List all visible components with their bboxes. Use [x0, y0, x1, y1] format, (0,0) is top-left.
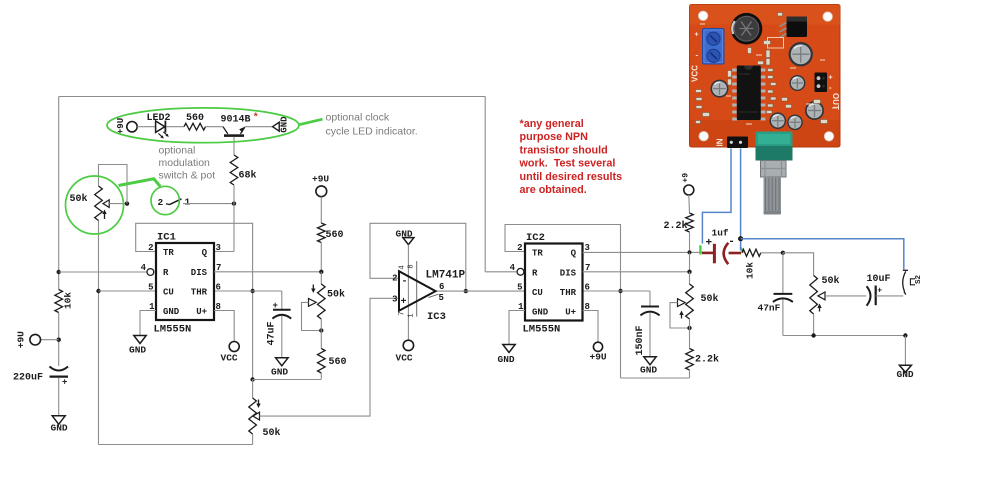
svg-text:purpose NPN: purpose NPN — [520, 131, 589, 143]
svg-text:-: - — [402, 276, 408, 287]
green pointer to caption — [299, 119, 323, 125]
wire 68k to Q node — [233, 185, 235, 204]
svg-text:work. Test several: work. Test several — [519, 158, 616, 170]
resistor 2.2k lower — [686, 349, 694, 371]
svg-text:LED2: LED2 — [147, 113, 171, 124]
svg-text:+: + — [706, 237, 713, 249]
ground IC1 — [134, 336, 146, 344]
node pot-rail junction — [811, 333, 815, 337]
svg-text:GND: GND — [163, 307, 180, 317]
PCB OUT header — [815, 73, 828, 93]
wire IC1 DIS — [214, 271, 321, 273]
wire bottom pot to rail — [252, 434, 254, 445]
svg-text:6: 6 — [216, 282, 221, 292]
svg-text:+9U: +9U — [116, 118, 126, 134]
svg-text:are obtained.: are obtained. — [520, 184, 587, 196]
svg-text:-: - — [696, 51, 699, 60]
svg-text:5: 5 — [439, 293, 444, 303]
wire timing node to bottom pot — [252, 380, 254, 399]
svg-text:optional clock: optional clock — [326, 112, 390, 124]
wire IC2 reset — [485, 271, 517, 273]
green pointer mod — [119, 179, 161, 187]
svg-text:GND: GND — [51, 423, 68, 434]
svg-text:IC2: IC2 — [526, 232, 545, 244]
svg-text:modulation: modulation — [159, 157, 211, 169]
svg-text:GND: GND — [498, 354, 515, 365]
PCB big capacitor — [731, 13, 763, 45]
svg-text:CU: CU — [163, 288, 174, 298]
ground 150nF — [644, 357, 656, 365]
wire mod pot wiper — [109, 203, 127, 205]
svg-text:50k: 50k — [70, 193, 88, 205]
svg-text:560: 560 — [326, 230, 344, 241]
node IC1 THR junction — [250, 289, 254, 293]
PCB capacitor C9 — [787, 115, 803, 131]
svg-text:+9: +9 — [681, 173, 690, 183]
wire IC2 gnd pin — [509, 311, 525, 345]
svg-text:TR: TR — [163, 248, 174, 258]
terminal +9V IC2 — [593, 342, 602, 351]
svg-text:1: 1 — [407, 313, 415, 317]
capacitor 150nF — [641, 306, 659, 308]
wire 220uF to gnd — [58, 378, 60, 416]
green circle switch — [151, 186, 179, 214]
capacitor 10uF — [867, 286, 871, 305]
svg-text:3: 3 — [585, 243, 590, 253]
op-amp U1 triangle — [399, 271, 436, 311]
svg-text:4: 4 — [141, 263, 147, 273]
svg-text:3: 3 — [216, 243, 221, 253]
svg-text:U+: U+ — [196, 307, 207, 317]
svg-text:2.2k: 2.2k — [664, 220, 688, 232]
wire op-amp output — [436, 290, 525, 292]
svg-text:DIS: DIS — [191, 268, 208, 278]
svg-text:-: - — [829, 83, 832, 92]
wire bottom rail — [99, 444, 253, 446]
node right DIS junction — [687, 270, 691, 274]
svg-text:S2: S2 — [915, 275, 923, 285]
green ellipse LED indicator — [107, 108, 299, 143]
wire IC2 TR loop — [505, 225, 621, 379]
svg-text:IN: IN — [716, 138, 725, 146]
svg-text:2: 2 — [392, 274, 397, 284]
wire CV to IC1 pin5 — [99, 290, 157, 292]
wire 10uF to S2 — [876, 295, 904, 297]
wire IC1 gnd pin — [140, 311, 156, 336]
svg-text:-: - — [728, 236, 735, 248]
PCB capacitor C10 — [805, 101, 824, 120]
wire 150nF to gnd — [649, 312, 651, 356]
terminal +9V right — [684, 185, 694, 195]
resistor 10k out — [742, 249, 761, 256]
ground IC2 — [503, 345, 515, 353]
terminal +9V left — [30, 334, 41, 345]
wire 150nF top — [649, 291, 651, 306]
svg-text:GND: GND — [897, 369, 914, 380]
PCB terminal block VCC — [703, 29, 725, 65]
svg-text:GND: GND — [279, 116, 289, 133]
svg-text:50k: 50k — [327, 289, 345, 301]
ground 47uF — [276, 358, 289, 366]
node DIS junction — [319, 270, 323, 274]
svg-text:LM555N: LM555N — [523, 324, 561, 336]
wire +9V to LED — [137, 126, 155, 128]
potentiometer 50k bottom — [249, 398, 257, 434]
capacitor 47nF — [774, 293, 793, 295]
wire IC2 timing bottom — [621, 377, 690, 379]
wire +9V to 2.2k — [688, 195, 691, 213]
svg-text:+9U: +9U — [312, 174, 329, 185]
wire wiper loop to pot top — [99, 165, 128, 204]
wire pot to 560 lower — [320, 319, 322, 349]
wire rail to gnd — [904, 336, 906, 366]
node R-row junction — [57, 270, 61, 274]
potentiometer 50k mid — [318, 284, 326, 319]
wire IC1 TR loop — [136, 223, 253, 379]
node rail-gnd junction — [903, 333, 907, 337]
svg-text:LM555N: LM555N — [154, 324, 192, 336]
wire right pot wiper loop — [670, 303, 690, 328]
svg-text:IC3: IC3 — [427, 311, 446, 323]
blue wire IN left — [702, 149, 731, 244]
wire IC2 Q output — [583, 251, 703, 253]
svg-text:5: 5 — [517, 282, 522, 292]
svg-text:5: 5 — [148, 282, 153, 292]
wire 560 to Q1 — [206, 126, 224, 128]
node switch-Q junction — [232, 201, 236, 205]
node IC1 timing junction — [250, 377, 254, 381]
svg-text:VCC: VCC — [221, 353, 238, 364]
svg-text:LM741P: LM741P — [426, 270, 466, 282]
svg-text:560: 560 — [329, 357, 347, 368]
svg-text:+: + — [62, 378, 67, 388]
PCB board — [690, 5, 841, 148]
node CV junction — [96, 289, 100, 293]
svg-text:Q: Q — [202, 248, 208, 258]
wire DIS node to right pot — [689, 272, 691, 284]
wire top rail — [59, 96, 486, 98]
capacitor C 1uf — [702, 252, 713, 255]
svg-text:cycle LED indicator.: cycle LED indicator. — [326, 126, 418, 138]
svg-text:*: * — [253, 112, 259, 124]
svg-text:3: 3 — [392, 294, 397, 304]
wire Q1 base — [233, 137, 235, 155]
svg-text:IC1: IC1 — [157, 232, 176, 244]
resistor 560 LED — [184, 123, 206, 130]
node A — [781, 251, 785, 255]
svg-text:150nF: 150nF — [635, 325, 646, 355]
wire 560 to DIS node — [320, 243, 322, 272]
svg-text:until desired results: until desired results — [520, 171, 623, 183]
wire wiper to 10uF — [825, 295, 866, 297]
wire +9V to 560 — [320, 197, 322, 223]
blue wire IN right — [740, 149, 742, 251]
wire THR to 47uF — [281, 291, 283, 309]
svg-text:47nF: 47nF — [758, 303, 781, 314]
svg-text:VCC: VCC — [691, 65, 700, 82]
svg-text:2.2k: 2.2k — [695, 354, 719, 366]
switch S2 — [903, 271, 906, 291]
wire 2.2k to Q row — [689, 232, 691, 252]
potentiometer 50k modulation — [95, 186, 103, 221]
node blue junction — [738, 236, 743, 241]
PCB potentiometer — [756, 132, 793, 161]
resistor 68k — [230, 155, 238, 185]
svg-text:+: + — [273, 301, 278, 311]
resistor 2.2k upper — [686, 213, 694, 232]
wire 47nF to rail — [782, 300, 784, 336]
wire CV rail vertical — [98, 221, 100, 445]
svg-text:TR: TR — [532, 249, 543, 259]
green tick right of 1uf — [740, 247, 743, 252]
wire Q node to IC1 pin3 — [233, 204, 235, 252]
green tick left of 1uf — [699, 245, 701, 254]
transistor Q1 9014B — [223, 127, 228, 134]
svg-text:7: 7 — [399, 311, 407, 315]
svg-text:GND: GND — [640, 365, 657, 376]
wire node A to pot top — [783, 253, 814, 276]
svg-text:50k: 50k — [822, 275, 840, 287]
resistor R 10k — [55, 290, 63, 313]
svg-text:560: 560 — [186, 113, 204, 124]
wire IC2 V+ pin — [583, 311, 599, 343]
svg-text:VCC: VCC — [396, 353, 413, 364]
wire mid pot wiper loop — [302, 302, 322, 330]
green circle mod pot — [66, 176, 124, 234]
ground op-amp top — [403, 238, 414, 245]
ground LED (sideways) — [273, 122, 280, 131]
svg-text:+: + — [695, 32, 699, 39]
wire left vertical — [58, 97, 60, 290]
IC1 reset bubble — [147, 269, 154, 276]
wire IC1 V+ pin — [214, 311, 234, 342]
svg-text:68k: 68k — [239, 170, 257, 182]
svg-text:8: 8 — [407, 264, 415, 268]
wire 10k to +9V node — [58, 313, 60, 367]
svg-text:10uF: 10uF — [867, 274, 891, 285]
potentiometer 50k output — [810, 275, 818, 314]
IC2 box — [525, 244, 583, 321]
wire LED to 560 — [167, 126, 185, 128]
wire +9V stub — [41, 339, 59, 341]
node IC2 THR junction — [618, 289, 622, 293]
svg-text:DIS: DIS — [560, 268, 577, 278]
svg-text:THR: THR — [560, 288, 577, 298]
node right pot bottom — [687, 326, 691, 330]
wire op-amp pin8/1 rail — [416, 261, 418, 317]
node mid pot bottom — [319, 328, 323, 332]
op-amp pin5 stub — [429, 294, 439, 297]
PCB DIP IC — [732, 69, 737, 72]
svg-text:4: 4 — [510, 263, 516, 273]
svg-text:2: 2 — [158, 197, 164, 208]
svg-text:50k: 50k — [263, 427, 281, 439]
svg-text:GND: GND — [271, 367, 288, 378]
wire 560 lower to timing node — [320, 373, 322, 380]
wire 47uF to gnd — [281, 316, 283, 358]
svg-text:+: + — [401, 297, 407, 308]
potentiometer 50k right — [686, 284, 694, 319]
svg-text:+: + — [877, 286, 882, 295]
svg-text:Q: Q — [571, 249, 577, 259]
svg-text:47uF: 47uF — [267, 321, 278, 345]
svg-text:R: R — [163, 268, 169, 278]
capacitor 47uF — [273, 309, 291, 311]
svg-text:10k: 10k — [63, 292, 74, 309]
svg-text:THR: THR — [191, 288, 208, 298]
PCB transistor — [787, 17, 808, 38]
wire 2.2k lower to rail — [689, 370, 691, 378]
wire Q1 emitter to gnd — [245, 126, 273, 128]
wire DIS node to pot — [320, 272, 322, 284]
resistor 560 upper — [318, 223, 326, 243]
blue wire to S2 — [741, 239, 904, 270]
svg-text:CU: CU — [532, 288, 543, 298]
node wiper junction — [125, 201, 129, 205]
svg-text:50k: 50k — [701, 293, 719, 305]
node op-amp output junction — [464, 289, 468, 293]
svg-text:10k: 10k — [745, 262, 756, 279]
wire IC2 THR to 150nF — [583, 290, 651, 292]
node Q-2.2k junction — [688, 250, 692, 254]
wire bottom pot wiper to op-amp — [260, 298, 400, 416]
ground output — [899, 365, 911, 372]
wire IC2 DIS — [583, 271, 690, 273]
PCB smd parts — [764, 41, 771, 45]
svg-text:GND: GND — [129, 345, 146, 356]
IC1 box — [156, 243, 214, 320]
svg-text:*any general: *any general — [520, 118, 584, 130]
svg-text:optional: optional — [159, 145, 196, 157]
PCB capacitor C7 — [711, 80, 729, 98]
wire op-amp feedback — [370, 223, 466, 291]
svg-text:switch & pot: switch & pot — [159, 170, 216, 182]
op-amp n/a wire THR — [214, 290, 282, 292]
PCB capacitor C5 — [789, 42, 813, 66]
node +9V junction — [57, 338, 61, 342]
svg-text:2: 2 — [517, 243, 522, 253]
svg-text:1: 1 — [185, 197, 191, 208]
svg-text:R: R — [532, 268, 538, 278]
svg-text:2: 2 — [148, 243, 153, 253]
wire op-amp V- rail — [407, 245, 409, 341]
svg-text:9014B: 9014B — [221, 114, 251, 125]
terminal +9V chain — [316, 186, 327, 197]
wire node A to 47nF — [782, 253, 784, 293]
ground left — [52, 416, 65, 425]
wire timing node to chain — [253, 379, 321, 381]
svg-text:+9U: +9U — [16, 331, 27, 348]
terminal VCC IC1 — [229, 342, 239, 352]
svg-text:GND: GND — [532, 308, 549, 318]
svg-text:220uF: 220uF — [13, 373, 43, 384]
PCB IN header — [727, 137, 748, 149]
svg-text:U+: U+ — [565, 308, 576, 318]
svg-text:transistor should: transistor should — [520, 144, 608, 156]
wire Q row to DIS node — [689, 252, 691, 271]
wire output pot to rail — [813, 314, 815, 336]
wire 10k to node A — [761, 252, 783, 254]
svg-text:+: + — [829, 75, 833, 82]
wire right pot to 2.2k lower — [689, 319, 691, 349]
PCB capacitor C8 — [770, 112, 787, 129]
resistor 560 lower — [318, 349, 326, 374]
wire reset row to IC1 pin4 — [59, 271, 147, 273]
svg-text:6: 6 — [439, 282, 444, 292]
svg-text:4: 4 — [399, 265, 407, 269]
IC2 reset bubble — [517, 268, 524, 275]
terminal VCC op-amp — [403, 340, 413, 350]
LED LED2 — [156, 121, 165, 132]
PCB capacitor C6 — [789, 75, 805, 91]
svg-text:+9U: +9U — [590, 352, 607, 363]
terminal +9V LED — [127, 122, 137, 132]
svg-text:1uf: 1uf — [712, 228, 729, 239]
capacitor C 220uF — [50, 367, 69, 371]
svg-text:6: 6 — [585, 282, 590, 292]
wire output ground rail — [783, 335, 906, 337]
wire switch to Q node — [183, 203, 234, 205]
